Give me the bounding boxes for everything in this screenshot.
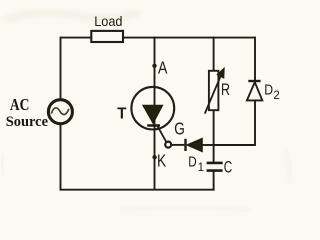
svg-text:Load: Load — [94, 13, 122, 29]
svg-text:D: D — [188, 153, 197, 170]
svg-text:A: A — [158, 58, 168, 78]
svg-text:R: R — [221, 81, 230, 99]
svg-text:T: T — [117, 106, 127, 123]
svg-text:G: G — [174, 118, 185, 138]
svg-text:AC: AC — [10, 95, 30, 114]
svg-text:K: K — [157, 150, 166, 170]
svg-text:2: 2 — [273, 90, 279, 102]
svg-text:C: C — [224, 158, 233, 177]
svg-text:1: 1 — [198, 162, 204, 174]
svg-text:D: D — [264, 81, 273, 98]
svg-text:Source: Source — [6, 113, 49, 130]
